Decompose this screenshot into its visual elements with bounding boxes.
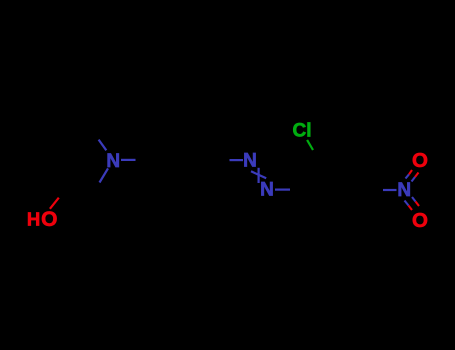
svg-text:N: N: [260, 180, 274, 201]
nitro N=O upper bond stroke 1 blue half: [406, 174, 410, 178]
bond N-CH3 (blue half): [99, 140, 107, 151]
azo N1=N2 crossed double bond line A: [258, 168, 260, 183]
nitro N=O upper bond stroke 2 red half: [415, 173, 419, 178]
azo N1=N2 crossed double bond line B: [251, 171, 266, 178]
svg-text:N: N: [397, 180, 411, 201]
bond ring-N nitro (blue half): [383, 189, 397, 191]
bond N-ring (blue half): [121, 159, 136, 161]
svg-text:N: N: [106, 151, 120, 172]
nitro N=O lower bond stroke 2 blue half: [412, 197, 416, 202]
bond N2-ring (blue half): [275, 189, 290, 191]
svg-text:Cl: Cl: [293, 120, 312, 141]
bond O-CH2 (red half): [50, 198, 59, 209]
bond ring-N1 azo (blue half): [230, 159, 244, 161]
bond CH2-N (blue half into amine N): [100, 168, 109, 182]
nitro N=O upper bond stroke 1 red half: [409, 170, 412, 174]
nitro N=O upper bond stroke 2 blue half: [412, 177, 416, 182]
nitro N=O lower bond stroke 1 red half: [409, 206, 413, 211]
bond Cl-ring (green half): [307, 140, 313, 150]
svg-text:O: O: [412, 149, 428, 172]
svg-text:O: O: [41, 208, 57, 231]
nitro N=O lower bond stroke 2 red half: [416, 202, 420, 207]
nitro N=O lower bond stroke 1 blue half: [405, 201, 409, 206]
svg-text:O: O: [412, 209, 428, 232]
svg-text:N: N: [243, 151, 257, 172]
svg-text:H: H: [27, 209, 40, 230]
